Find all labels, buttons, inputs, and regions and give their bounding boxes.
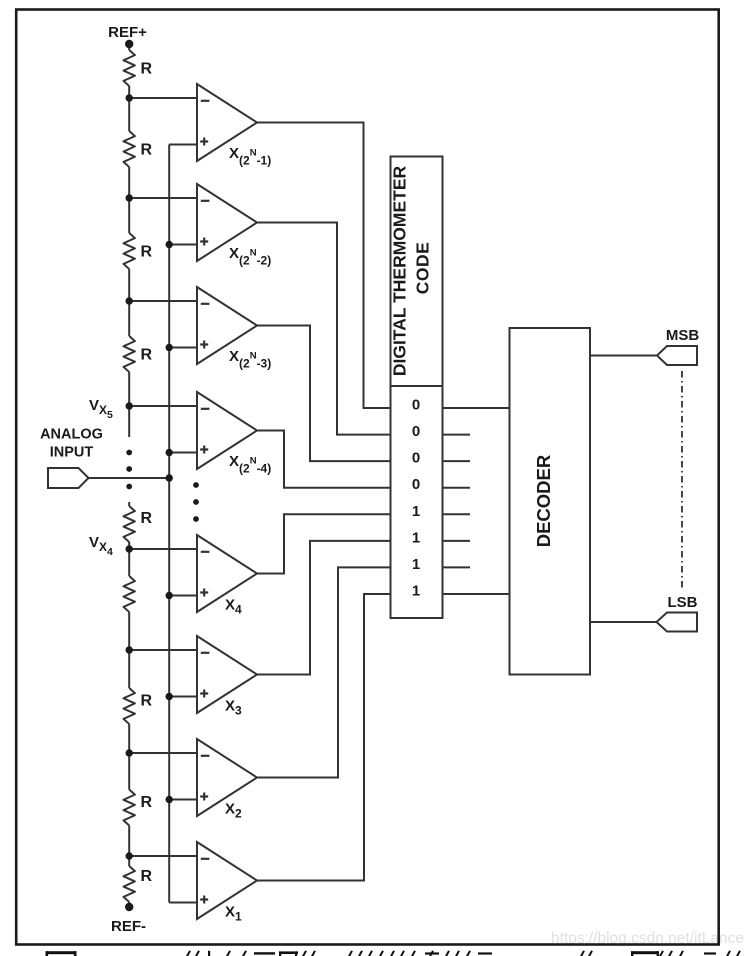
svg-text:1: 1 (412, 556, 420, 573)
pin + (non-inverting input mark) (200, 793, 208, 801)
pin - (inverting input mark) (201, 100, 210, 102)
pin + (non-inverting input mark) (200, 341, 208, 349)
svg-text:0: 0 (412, 450, 420, 467)
wire bus to comparator 5 non-inverting input (169, 595, 197, 597)
wire code row 4 output stub (443, 487, 471, 489)
svg-text:ANALOG: ANALOG (40, 427, 103, 443)
analog input connector tag (48, 468, 89, 488)
LSB output connector tag (657, 613, 698, 632)
pin + (non-inverting input mark) (200, 690, 208, 698)
wire analog input to bus (89, 477, 170, 479)
svg-text:R: R (141, 61, 153, 78)
wire bus to comparator 3 non-inverting input (169, 347, 197, 349)
svg-text:VX5: VX5 (89, 397, 113, 421)
node REF- junction dot (125, 903, 133, 911)
resistor R6 (124, 576, 135, 612)
svg-text:0: 0 (412, 476, 420, 493)
wire bus to comparator 7 non-inverting input (169, 799, 197, 801)
pin - (inverting input mark) (201, 551, 210, 553)
op-amp comparator X(2^N-4) (197, 392, 257, 469)
svg-text:R: R (141, 510, 153, 527)
svg-text:1: 1 (412, 503, 420, 520)
node REF+ junction dot (125, 40, 133, 48)
svg-text:R: R (141, 142, 153, 159)
resistor R3 (124, 233, 135, 269)
wire comparator 2 output to code row 2 (257, 223, 391, 435)
svg-text:R: R (141, 794, 153, 811)
node bus junction at comparator 3 + input (166, 693, 173, 700)
node bus junction at comparator 4 + input (166, 592, 173, 599)
pin + (non-inverting input mark) (200, 589, 208, 597)
resistor R2 (124, 131, 135, 167)
wire ladder tap to comparator 8 inverting input (129, 855, 197, 857)
svg-text:R: R (141, 693, 153, 710)
svg-text:X2: X2 (225, 801, 242, 821)
wire decoder LSB output (590, 621, 657, 623)
comparator column continuation dots (193, 482, 199, 488)
op-amp comparator X2 (197, 739, 257, 816)
wire comparator 6 output to code row 6 (257, 541, 391, 675)
svg-text:X1: X1 (225, 904, 242, 924)
wire comparator 8 output to code row 8 (257, 594, 391, 881)
svg-text:DECODER: DECODER (533, 455, 554, 548)
wire bus to comparator 4 non-inverting input (169, 452, 197, 454)
wire ladder tap to comparator 3 inverting input (129, 300, 197, 302)
svg-text:R: R (141, 868, 153, 885)
digital thermometer code block (391, 157, 443, 619)
wire dashed MSB-LSB continuation (681, 371, 683, 589)
pin - (inverting input mark) (201, 200, 210, 202)
node analog input junction (166, 474, 173, 481)
wire comparator 5 output to code row 5 (257, 514, 391, 573)
resistor R9 (124, 866, 135, 902)
svg-text:X(2N-1): X(2N-1) (229, 145, 271, 168)
svg-text:0: 0 (412, 397, 420, 414)
op-amp comparator X1 (197, 842, 257, 919)
wire ladder tap to comparator 7 inverting input (129, 752, 197, 754)
node bus junction at comparator 2 + input (166, 241, 173, 248)
decoder block U1 (510, 328, 591, 675)
wire ladder tap to comparator 2 inverting input (129, 197, 197, 199)
node ladder tap 8 junction dot (126, 852, 133, 859)
pin + (non-inverting input mark) (200, 446, 208, 454)
svg-text:X3: X3 (225, 698, 242, 718)
op-amp comparator X(2^N-1) (197, 84, 257, 161)
node ladder tap 4 junction dot (126, 402, 133, 409)
svg-text:DIGITAL THERMOMETER: DIGITAL THERMOMETER (390, 165, 410, 376)
svg-text:VX4: VX4 (89, 534, 113, 558)
svg-text:X(2N-3): X(2N-3) (229, 348, 271, 371)
node ladder tap 7 junction dot (126, 749, 133, 756)
wire bus to comparator 8 non-inverting input (169, 902, 197, 904)
node bus junction at comparator 2 + input (166, 796, 173, 803)
svg-text:REF-: REF- (111, 918, 146, 935)
wire comparator 1 output to code row 1 (257, 123, 391, 409)
resistor R4 (124, 336, 135, 372)
pin - (inverting input mark) (201, 652, 210, 654)
pin - (inverting input mark) (201, 303, 210, 305)
svg-text:X4: X4 (225, 597, 242, 617)
wire code row 7 output stub (443, 566, 471, 568)
wire comparator 4 output to code row 4 (257, 431, 391, 488)
pin + (non-inverting input mark) (200, 238, 208, 246)
op-amp comparator X(2^N-2) (197, 184, 257, 261)
svg-text:INPUT: INPUT (50, 445, 94, 461)
svg-text:CODE: CODE (413, 242, 433, 295)
wire code row 1 to decoder (443, 407, 510, 409)
wire bus to comparator 1 non-inverting input (169, 144, 197, 146)
resistor R1 (124, 50, 135, 86)
wire code row 6 output stub (443, 540, 471, 542)
svg-text:LSB: LSB (668, 594, 698, 611)
wire bus to comparator 2 non-inverting input (169, 244, 197, 246)
wire code row 5 output stub (443, 513, 471, 515)
svg-text:1: 1 (412, 583, 420, 600)
node ladder tap 1 junction dot (126, 94, 133, 101)
svg-text:R: R (141, 347, 153, 364)
op-amp comparator X(2^N-3) (197, 287, 257, 364)
wire ladder tap to comparator 5 inverting input (129, 548, 197, 550)
node bus junction at comparator 3 + input (166, 344, 173, 351)
svg-text:X(2N-2): X(2N-2) (229, 245, 271, 268)
wire ladder tap to comparator 6 inverting input (129, 649, 197, 651)
wire ladder bottom section (128, 502, 130, 907)
op-amp comparator X3 (197, 636, 257, 713)
wire comparator 7 output to code row 7 (257, 567, 391, 777)
pin - (inverting input mark) (201, 755, 210, 757)
wire ladder tap to comparator 4 inverting input (129, 405, 197, 407)
pin - (inverting input mark) (201, 858, 210, 860)
MSB output connector tag (657, 346, 697, 365)
resistor R5 (124, 506, 135, 542)
svg-text:0: 0 (412, 423, 420, 440)
svg-text:MSB: MSB (666, 327, 700, 344)
pin + (non-inverting input mark) (200, 896, 208, 904)
wire analog input bus vertical (168, 145, 170, 903)
wire decoder MSB output (590, 355, 657, 357)
svg-text:1: 1 (412, 529, 420, 546)
wire ladder tap to comparator 1 inverting input (129, 97, 197, 99)
svg-text:X(2N-4): X(2N-4) (229, 453, 271, 476)
resistor R7 (124, 688, 135, 724)
op-amp comparator X4 (197, 535, 257, 612)
figure caption (cropped glyph tops) (46, 951, 741, 956)
wire code row 3 output stub (443, 460, 471, 462)
node ladder tap 6 junction dot (126, 646, 133, 653)
node bus junction at comparator 4 + input (166, 449, 173, 456)
ladder continuation dots (126, 450, 132, 456)
resistor R8 (124, 790, 135, 826)
svg-text:REF+: REF+ (108, 24, 147, 41)
wire code row 8 to decoder (443, 593, 510, 595)
node ladder tap 3 junction dot (126, 297, 133, 304)
pin - (inverting input mark) (201, 408, 210, 410)
wire ladder top section (128, 44, 130, 437)
node ladder tap 2 junction dot (126, 194, 133, 201)
wire code row 2 output stub (443, 434, 471, 436)
svg-text:R: R (141, 244, 153, 261)
pin + (non-inverting input mark) (200, 138, 208, 146)
wire comparator 3 output to code row 3 (257, 326, 391, 462)
node ladder tap 5 junction dot (126, 545, 133, 552)
wire bus to comparator 6 non-inverting input (169, 696, 197, 698)
